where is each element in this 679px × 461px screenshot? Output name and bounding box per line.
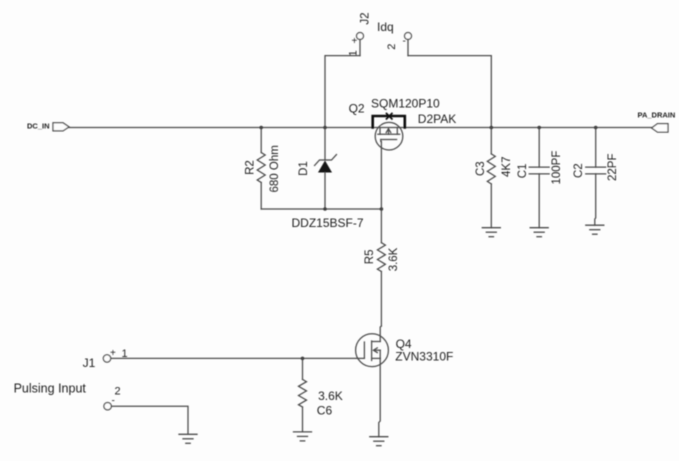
junction rail/C2	[594, 126, 598, 130]
wire Q4 source to ground	[379, 358, 380, 436]
svg-text:Pulsing Input: Pulsing Input	[14, 381, 87, 395]
svg-text:C1: C1	[517, 164, 529, 179]
connector J1 pin 1	[103, 355, 110, 362]
svg-text:C2: C2	[573, 163, 585, 178]
wire J1 pin 2 to ground	[111, 406, 188, 434]
svg-text:+: +	[110, 348, 116, 359]
wire gate bus	[261, 208, 381, 210]
connector J1 pin 2	[104, 403, 111, 410]
svg-text:Q2: Q2	[349, 101, 365, 115]
junction rail/C3	[490, 126, 494, 130]
resistor C6	[299, 358, 307, 432]
zener diode D1	[315, 128, 337, 210]
svg-text:C3: C3	[475, 161, 487, 176]
port PA_DRAIN	[652, 124, 668, 133]
junction gate bus/R5	[380, 207, 384, 211]
svg-text:ZVN3310F: ZVN3310F	[395, 350, 453, 364]
svg-text:100PF: 100PF	[551, 151, 563, 185]
transistor Q2	[373, 113, 405, 209]
svg-text:22PF: 22PF	[607, 154, 619, 182]
resistor R5	[377, 209, 385, 342]
svg-text:PA_DRAIN: PA_DRAIN	[638, 110, 676, 119]
wire main rail	[69, 127, 652, 129]
svg-text:Idq: Idq	[377, 20, 394, 34]
wire J1 pin 1 to Q4 gate	[111, 357, 365, 359]
junction gate bus/D1	[323, 207, 327, 211]
svg-text:R5: R5	[364, 249, 376, 264]
svg-text:-: -	[112, 396, 115, 407]
svg-text:3.6K: 3.6K	[388, 247, 400, 271]
connector J2 pin 1	[357, 33, 364, 56]
port DC_IN	[53, 123, 69, 131]
wire J2 pin 1 to node D1	[325, 56, 360, 128]
svg-text:J2: J2	[360, 12, 372, 24]
svg-text:DC_IN: DC_IN	[27, 122, 50, 131]
svg-text:R2: R2	[245, 160, 257, 175]
svg-text:2: 2	[386, 44, 398, 50]
ground J1	[179, 434, 197, 443]
junction gate/C6	[301, 357, 305, 361]
resistor C3	[487, 128, 495, 228]
ground Q4	[370, 437, 388, 446]
ground C1	[530, 228, 548, 237]
connector J2 pin 2	[405, 33, 412, 56]
junction rail/C1	[537, 126, 541, 130]
ground C3	[482, 228, 500, 237]
junction rail/R2	[259, 126, 263, 130]
svg-text:D1: D1	[298, 161, 310, 176]
svg-text:4K7: 4K7	[501, 157, 513, 177]
svg-text:+: +	[352, 36, 358, 47]
svg-text:C6: C6	[317, 404, 333, 418]
svg-text:2: 2	[115, 386, 121, 398]
ground C6	[294, 432, 312, 441]
resistor R2	[257, 128, 265, 210]
svg-text:DDZ15BSF-7: DDZ15BSF-7	[292, 216, 364, 230]
junction rail/D1	[323, 126, 327, 130]
capacitor C1	[529, 128, 549, 228]
svg-text:3.6K: 3.6K	[318, 389, 343, 403]
svg-text:SQM120P10: SQM120P10	[371, 97, 440, 111]
capacitor C2	[586, 128, 606, 226]
svg-text:680 Ohm: 680 Ohm	[269, 145, 281, 192]
wire J2 pin 2 to node C3	[408, 56, 491, 128]
transistor Q4	[356, 334, 389, 367]
ground C2	[586, 225, 604, 234]
svg-text:D2PAK: D2PAK	[418, 112, 456, 126]
svg-text:J1: J1	[83, 356, 96, 370]
svg-text:-: -	[403, 36, 406, 47]
